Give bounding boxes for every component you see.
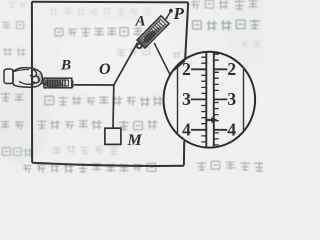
svg-text:O: O bbox=[99, 61, 111, 78]
svg-text:4: 4 bbox=[227, 120, 236, 140]
svg-text:A: A bbox=[135, 14, 146, 30]
svg-text:M: M bbox=[127, 132, 143, 149]
svg-text:3: 3 bbox=[182, 89, 191, 109]
svg-text:B: B bbox=[60, 58, 71, 74]
svg-text:3: 3 bbox=[227, 89, 236, 109]
svg-text:4: 4 bbox=[182, 120, 191, 140]
svg-text:2: 2 bbox=[182, 59, 191, 79]
svg-text:2: 2 bbox=[227, 59, 236, 79]
svg-text:P: P bbox=[173, 4, 185, 23]
